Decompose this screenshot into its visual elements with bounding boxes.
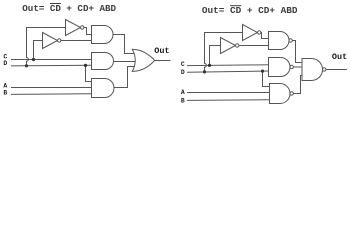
label C (right): [181, 61, 185, 68]
svg-text:Out= CD + CD+ ABD: Out= CD + CD+ ABD: [22, 3, 116, 14]
junction dot D (right): [203, 70, 206, 73]
label B (right): [181, 97, 185, 104]
NAND G6 bubble: [290, 65, 293, 68]
svg-text:A: A: [3, 82, 7, 89]
label C: [3, 54, 7, 61]
junction dot D at x262 (right): [261, 70, 264, 73]
junction dot D at x85: [84, 64, 87, 67]
wire A input line (right): [187, 92, 270, 94]
junction dot D at x26: [25, 64, 28, 67]
label Out (left): [154, 46, 169, 56]
wire OR output: [154, 60, 170, 62]
junction dot C at x33: [32, 58, 35, 61]
AND gate G3 (bottom): [92, 79, 115, 98]
svg-text:D: D: [181, 69, 185, 76]
svg-text:A: A: [181, 89, 185, 96]
title left: Out= CD + CD+ ABD: [22, 3, 116, 14]
label A: [3, 82, 7, 89]
inverter U3 (upper, right): [243, 25, 258, 41]
label A (right): [181, 89, 185, 96]
inverter U2 bubble: [58, 39, 61, 42]
overline over first CD (right title): [230, 5, 241, 7]
title right: Out= CD + CD+ ABD: [202, 5, 298, 16]
label D (right): [181, 69, 185, 76]
wire C up to lower inverter (right): [210, 46, 221, 66]
NAND gate G8 (output, right): [302, 59, 323, 81]
wire U1 output to top AND upper input: [84, 28, 92, 35]
inverter U3 bubble: [258, 31, 261, 34]
svg-text:C: C: [181, 61, 185, 68]
inverter U4 bubble: [236, 44, 239, 47]
inverter U1 (upper, D-bar): [66, 20, 81, 36]
wire G2 output to OR middle input: [114, 61, 137, 63]
wire C input line: [11, 59, 92, 61]
junction dot C (right): [208, 64, 211, 67]
wire D up to upper inverter (hop over C line): [27, 28, 66, 66]
wire G3 output to OR bottom input: [114, 67, 135, 88]
wire G6 output to output NAND middle input: [293, 66, 302, 68]
inverter U1 bubble: [81, 26, 84, 29]
svg-text:Out: Out: [154, 46, 169, 56]
inverter U4 (lower, right): [221, 38, 236, 54]
label Out (right): [332, 52, 347, 62]
wire C input line (right): [187, 64, 269, 67]
wire B input line: [11, 93, 92, 96]
label D: [3, 60, 7, 67]
NAND G8 bubble: [323, 68, 326, 71]
wire D input line (right): [187, 71, 269, 72]
AND gate G2 (middle): [92, 53, 114, 70]
wire D down to bottom AND gate: [86, 65, 92, 81]
svg-text:B: B: [181, 97, 185, 104]
wire D input line: [11, 64, 92, 67]
wire G5 output to output NAND top input: [292, 41, 302, 63]
wire U2 output to top AND lower input: [61, 40, 92, 42]
svg-text:D: D: [3, 60, 7, 67]
AND gate G1 (top): [92, 26, 114, 44]
svg-text:Out= CD + CD+ ABD: Out= CD + CD+ ABD: [202, 5, 298, 16]
label B: [3, 89, 7, 96]
wire U3 output to top NAND upper input: [261, 33, 269, 39]
wire U4 output to top NAND lower input: [239, 45, 269, 47]
NAND gate G6 (middle, right): [269, 58, 290, 77]
svg-text:B: B: [3, 89, 7, 96]
wire C up to lower inverter: [34, 41, 43, 60]
OR gate G4 (output stage): [132, 49, 154, 71]
wire B input line (right): [187, 99, 270, 102]
wire G1 output to OR top input: [113, 35, 135, 54]
wire D up to upper inverter with hop over C line (right): [205, 33, 243, 72]
wire A input line: [11, 87, 92, 89]
inverter U2 (lower, C-bar): [43, 33, 58, 49]
wire D down to bottom NAND (right): [263, 71, 270, 86]
NAND gate G5 (top, right): [269, 32, 290, 50]
wire G8 output: [326, 69, 347, 71]
wire G7 output to output NAND bottom input: [293, 76, 302, 94]
NAND G5 bubble: [289, 39, 292, 42]
overline over first CD (left title): [50, 3, 61, 5]
svg-text:Out: Out: [332, 52, 347, 62]
NAND G7 bubble: [290, 92, 293, 95]
NAND gate G7 (bottom, right): [270, 84, 291, 104]
